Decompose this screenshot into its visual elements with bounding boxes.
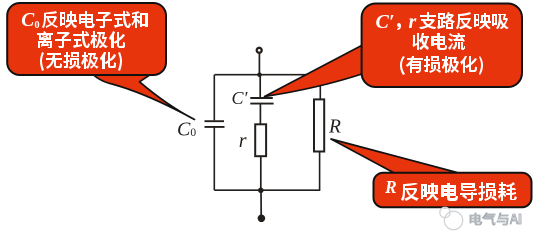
terminal bottom <box>258 215 265 222</box>
wire middle branch mid <box>259 104 261 124</box>
svg-text:r: r <box>239 130 247 152</box>
resistor r <box>255 124 266 156</box>
wire left branch lower <box>213 128 215 191</box>
callout text: C'-r branch note line1 <box>376 11 510 75</box>
svg-text:C′: C′ <box>376 11 395 33</box>
resistor R <box>314 99 324 151</box>
callout text: C'-r branch note line2 <box>412 33 465 50</box>
wire bottom bus <box>214 189 320 191</box>
callout tail: C0 note <box>89 70 195 120</box>
svg-text:R: R <box>328 117 341 138</box>
node top junction <box>257 72 262 77</box>
watermark logo <box>440 207 463 229</box>
svg-text:R: R <box>384 177 397 197</box>
capacitor C' <box>250 98 273 104</box>
callout text: C0 note line3 <box>40 52 122 71</box>
wire middle branch lower <box>260 156 262 190</box>
wire right branch upper <box>319 75 321 100</box>
svg-text:C0: C0 <box>177 119 196 141</box>
svg-text:r: r <box>409 11 417 33</box>
terminal top <box>257 48 262 53</box>
callout text: C'-r branch note line3 <box>400 56 483 75</box>
capacitor C0 <box>205 121 225 127</box>
callout tail: R note <box>331 139 457 175</box>
callout tail: C'-r branch note <box>265 45 366 97</box>
callout bubble: C0 note <box>7 3 166 75</box>
svg-text:C′: C′ <box>232 88 249 108</box>
wire middle branch upper <box>259 75 261 98</box>
wire top bus <box>215 74 321 76</box>
wire top lead <box>258 53 260 75</box>
callout text: R note <box>384 177 517 201</box>
node bottom junction <box>258 188 264 194</box>
callout bubble: R note <box>374 173 532 208</box>
watermark text <box>470 213 521 225</box>
callout bubble: C'-r branch note <box>362 4 522 88</box>
callout text: C0 note line2 <box>37 31 125 48</box>
wire left branch upper <box>213 75 215 121</box>
callout text: C0 note line1 <box>21 10 148 71</box>
wire bottom lead <box>260 190 262 215</box>
wire right branch lower <box>319 152 321 191</box>
